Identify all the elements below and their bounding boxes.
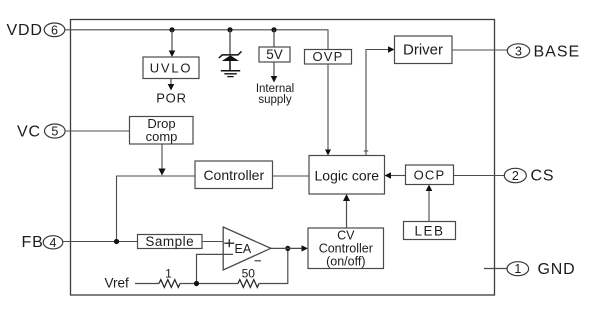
pin CS label [531, 168, 555, 185]
svg-text:POR: POR [156, 91, 187, 106]
pin GND label [538, 261, 576, 278]
svg-text:VC: VC [17, 124, 41, 141]
svg-text:2: 2 [512, 169, 519, 183]
wire feedback to EA output node [259, 248, 288, 283]
svg-text:1: 1 [165, 267, 172, 281]
pin 3 circle [507, 44, 529, 59]
label POR [156, 91, 187, 106]
IC outline box [71, 20, 495, 296]
svg-text:FB: FB [22, 234, 44, 251]
junction dot FB branch [114, 239, 119, 244]
wire Sample to EA plus input [202, 241, 224, 243]
wire VDD to UVLO [169, 30, 176, 57]
junction dot VDD-5V [271, 27, 276, 32]
pin 4 circle [43, 236, 63, 250]
pin BASE label [534, 44, 581, 61]
wire LEB to OCP [426, 185, 433, 222]
svg-text:LEB: LEB [414, 224, 444, 239]
svg-text:6: 6 [51, 23, 58, 37]
block LEB [404, 222, 456, 240]
wire resistor1 to junction [180, 283, 238, 285]
svg-text:CS: CS [531, 168, 555, 185]
pin VDD label [7, 22, 43, 39]
resistor 50 [238, 267, 259, 288]
svg-text:comp: comp [146, 129, 178, 144]
block Controller [195, 161, 273, 189]
ground [221, 71, 240, 77]
svg-text:CV: CV [337, 229, 355, 243]
svg-text:3: 3 [515, 44, 522, 58]
block UVLO [143, 57, 199, 79]
label Internal supply [256, 83, 294, 106]
block 5V [259, 47, 290, 62]
svg-text:VDD: VDD [7, 22, 43, 39]
svg-text:GND: GND [538, 261, 576, 278]
wire OVP to Logic core [325, 64, 331, 156]
wire Vref to resistor 1 [135, 283, 159, 285]
svg-text:50: 50 [242, 267, 256, 281]
svg-text:Driver: Driver [403, 42, 443, 59]
wire FB to Sample [63, 241, 138, 243]
svg-text:EA: EA [235, 242, 252, 256]
wire EA minus input from divider [197, 254, 234, 283]
pin 5 circle [45, 124, 66, 139]
svg-text:Sample: Sample [145, 234, 194, 249]
wire VC to Drop comp [65, 130, 130, 132]
wire OCP to CS [454, 175, 505, 177]
wire GND tick [484, 268, 507, 270]
svg-text:OVP: OVP [312, 49, 343, 64]
junction dot EA output [285, 246, 290, 251]
block Logic core [309, 156, 385, 195]
svg-text:Logic core: Logic core [315, 168, 380, 184]
svg-text:OCP: OCP [414, 168, 446, 183]
svg-text:5: 5 [51, 125, 58, 139]
label Vref [105, 276, 130, 291]
wire Drop comp down arrow [158, 144, 165, 176]
wire Driver to BASE [452, 49, 507, 51]
block Drop comp [130, 116, 194, 144]
block Sample [138, 234, 203, 249]
svg-text:Controller: Controller [319, 242, 373, 256]
svg-text:1: 1 [514, 262, 521, 276]
junction dot VDD-zener [227, 27, 232, 32]
svg-text:4: 4 [50, 236, 57, 250]
svg-text:Controller: Controller [203, 167, 264, 183]
wire FB-branch to Controller [117, 176, 196, 242]
pin 2 circle [504, 168, 526, 183]
wire CV Controller to Logic core [343, 194, 350, 228]
svg-text:UVLO: UVLO [150, 61, 193, 76]
junction dot Vref divider [194, 281, 199, 286]
svg-text:Vref: Vref [105, 276, 130, 291]
svg-text:5V: 5V [266, 47, 283, 62]
block OCP [406, 165, 454, 185]
svg-text:supply: supply [258, 94, 291, 106]
svg-text:BASE: BASE [534, 44, 581, 61]
op-amp EA [223, 227, 271, 270]
block CV Controller [308, 228, 384, 269]
svg-text:(on/off): (on/off) [326, 255, 365, 269]
wire Logic core to Driver [364, 46, 395, 155]
block Driver [395, 36, 453, 64]
wire 5V to internal supply arrow [271, 62, 278, 83]
junction dot VDD-UVLO [169, 27, 174, 32]
wire VDD rail [65, 30, 328, 50]
pin FB label [22, 234, 44, 251]
pin 1 circle [507, 262, 529, 277]
wire Controller to Logic core [273, 175, 310, 177]
zener diode [219, 51, 242, 70]
wire VDD to zener [229, 30, 231, 55]
block OVP [305, 49, 352, 64]
wire OCP to Logic core [385, 172, 406, 178]
wire EA output to CV Controller [271, 245, 308, 251]
wire VDD to 5V box [273, 30, 275, 47]
pin VC label [17, 124, 41, 141]
pin 6 circle [44, 23, 65, 37]
wire UVLO to POR arrow [168, 79, 175, 91]
resistor 1 [159, 267, 180, 288]
